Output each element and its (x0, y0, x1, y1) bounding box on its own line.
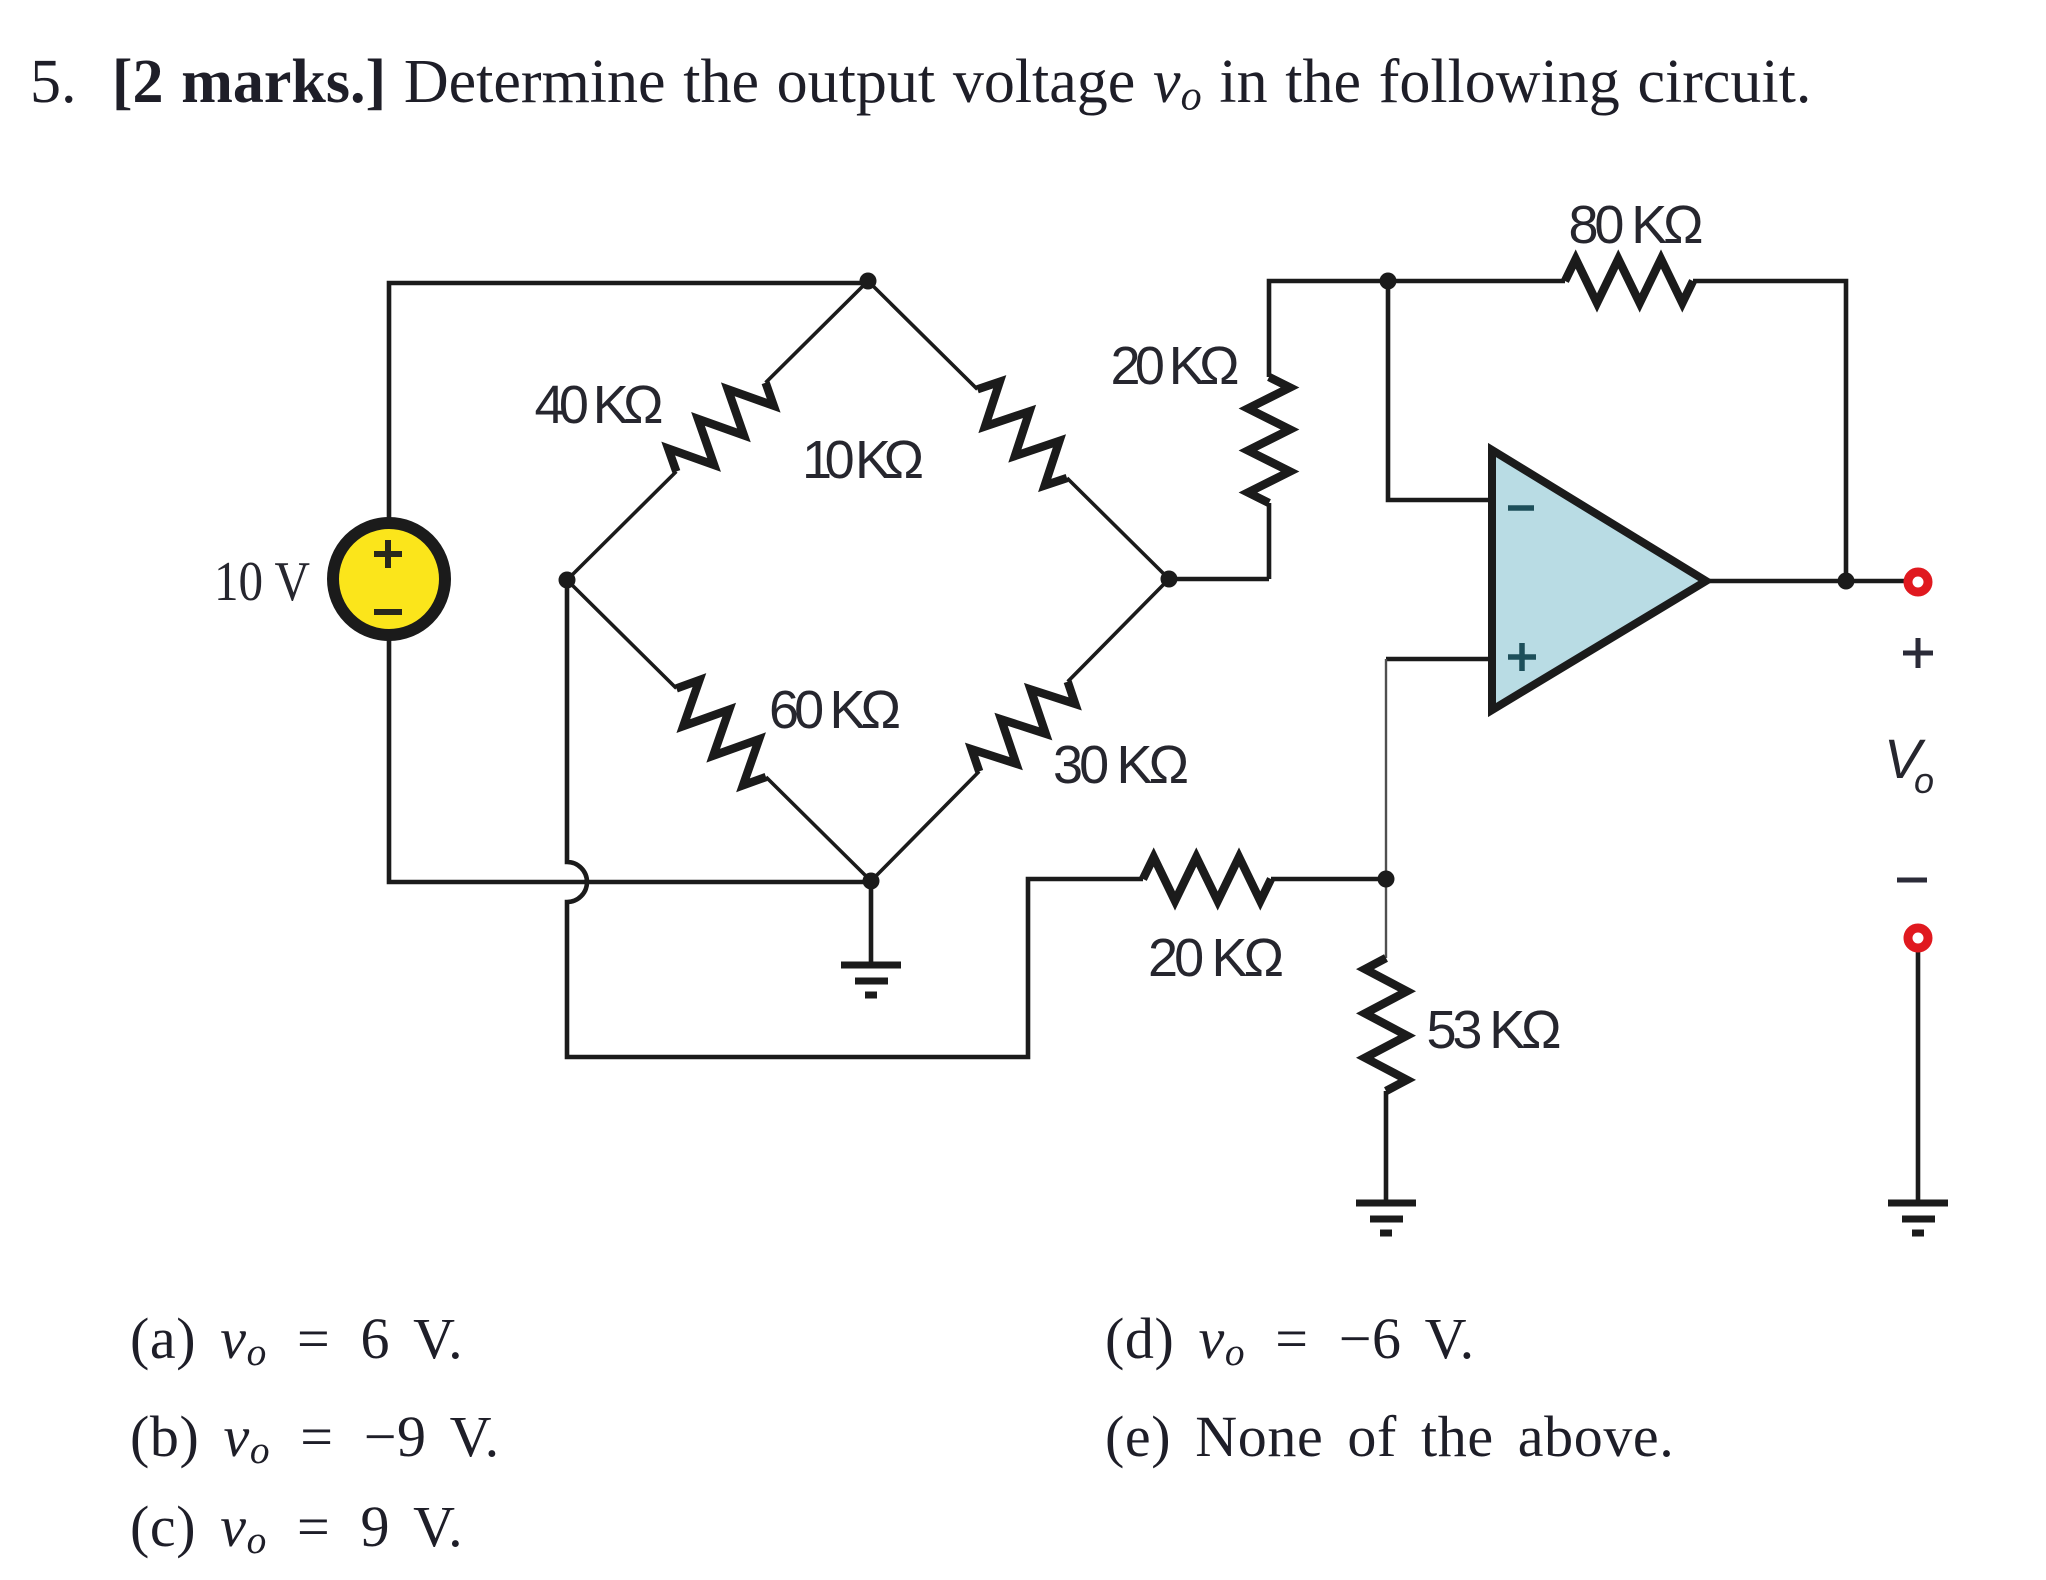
resistor 80 KΩ (1565, 259, 1693, 303)
node diamond top (860, 273, 877, 290)
wire 60k branch ends (567, 580, 871, 881)
option e (1105, 1408, 1674, 1466)
diamond diagonals thin (567, 281, 1169, 881)
label Vo (1884, 727, 1934, 801)
terminal vo+ (1908, 572, 1928, 592)
option d (1105, 1310, 1475, 1373)
option b (130, 1408, 500, 1471)
svg-text:o: o (1914, 760, 1934, 801)
op-amp minus label (1508, 505, 1534, 511)
wire 53k top lead (thin) (1385, 879, 1387, 958)
junction node dots (559, 273, 1855, 890)
op-amp plus label (1508, 643, 1536, 671)
svg-text:53 KΩ: 53 KΩ (1427, 1000, 1562, 1060)
voltage source 10 V (333, 523, 445, 635)
wire 80k right to output corner (1693, 281, 1846, 581)
resistor 60 KΩ (676, 680, 766, 785)
wire 40k branch ends (567, 281, 868, 580)
title (30, 51, 1811, 118)
ground (output) (1888, 1203, 1948, 1233)
svg-text:20 KΩ: 20 KΩ (1148, 928, 1284, 988)
node plus-input junction (1378, 871, 1395, 888)
output plus sign (1903, 638, 1933, 668)
resistor 40 KΩ (668, 383, 774, 472)
wire left node down, hop over, bottom run, up to 20k resistor (567, 580, 1143, 1057)
option c (130, 1498, 463, 1561)
resistor 20 KΩ horizontal (1143, 857, 1271, 901)
svg-text:30 KΩ: 30 KΩ (1053, 735, 1189, 795)
wire 20k vertical top to feedback junction and 80k (1269, 281, 1565, 377)
source plus (374, 540, 402, 568)
wire bottom terminal to ground (1916, 951, 1921, 1201)
node output junction (1838, 573, 1855, 590)
source minus (374, 609, 402, 615)
wire 20k horiz right side to plus junction (1271, 877, 1386, 882)
node diamond bottom (863, 873, 880, 890)
svg-text:10 V: 10 V (214, 551, 310, 613)
resistors zigzags (668, 259, 1693, 1091)
wire source bottom to diamond bottom node (389, 639, 871, 882)
wire 30k branch ends (871, 579, 1169, 881)
terminal vo- (1908, 928, 1928, 948)
op-amp U1 (1492, 450, 1706, 710)
resistor 20 KΩ vertical (1248, 377, 1290, 503)
wire plus junction vertical (thin) (1385, 659, 1387, 958)
wire op-amp output to terminal (1706, 579, 1905, 584)
node feedback junction (1380, 273, 1397, 290)
svg-text:60 KΩ: 60 KΩ (769, 680, 901, 740)
svg-text:80 KΩ: 80 KΩ (1569, 195, 1704, 255)
ground (53k) (1356, 1203, 1416, 1233)
output minus sign (1897, 878, 1927, 883)
svg-text:20 KΩ: 20 KΩ (1111, 336, 1240, 396)
resistor 30 KΩ (972, 682, 1076, 772)
svg-text:10 KΩ: 10 KΩ (802, 430, 924, 490)
node diamond right (1161, 571, 1178, 588)
wire diamond bottom to ground (869, 881, 874, 963)
wire 10k branch ends (868, 281, 1169, 579)
node diamond left (559, 572, 576, 589)
wire feedback junction down to minus input (1388, 281, 1494, 500)
ground (diamond bottom) (841, 965, 901, 995)
wire top-left from source to diamond top (389, 283, 868, 519)
resistor 53 KΩ (1365, 958, 1407, 1091)
svg-text:40 KΩ: 40 KΩ (535, 375, 664, 435)
wire right node to 20k vertical bottom (1169, 503, 1269, 579)
wire 53k bottom to ground (1384, 1091, 1389, 1201)
option a (130, 1310, 463, 1373)
resistor 10 KΩ (977, 382, 1067, 486)
wire plus input horizontal (1386, 657, 1494, 662)
